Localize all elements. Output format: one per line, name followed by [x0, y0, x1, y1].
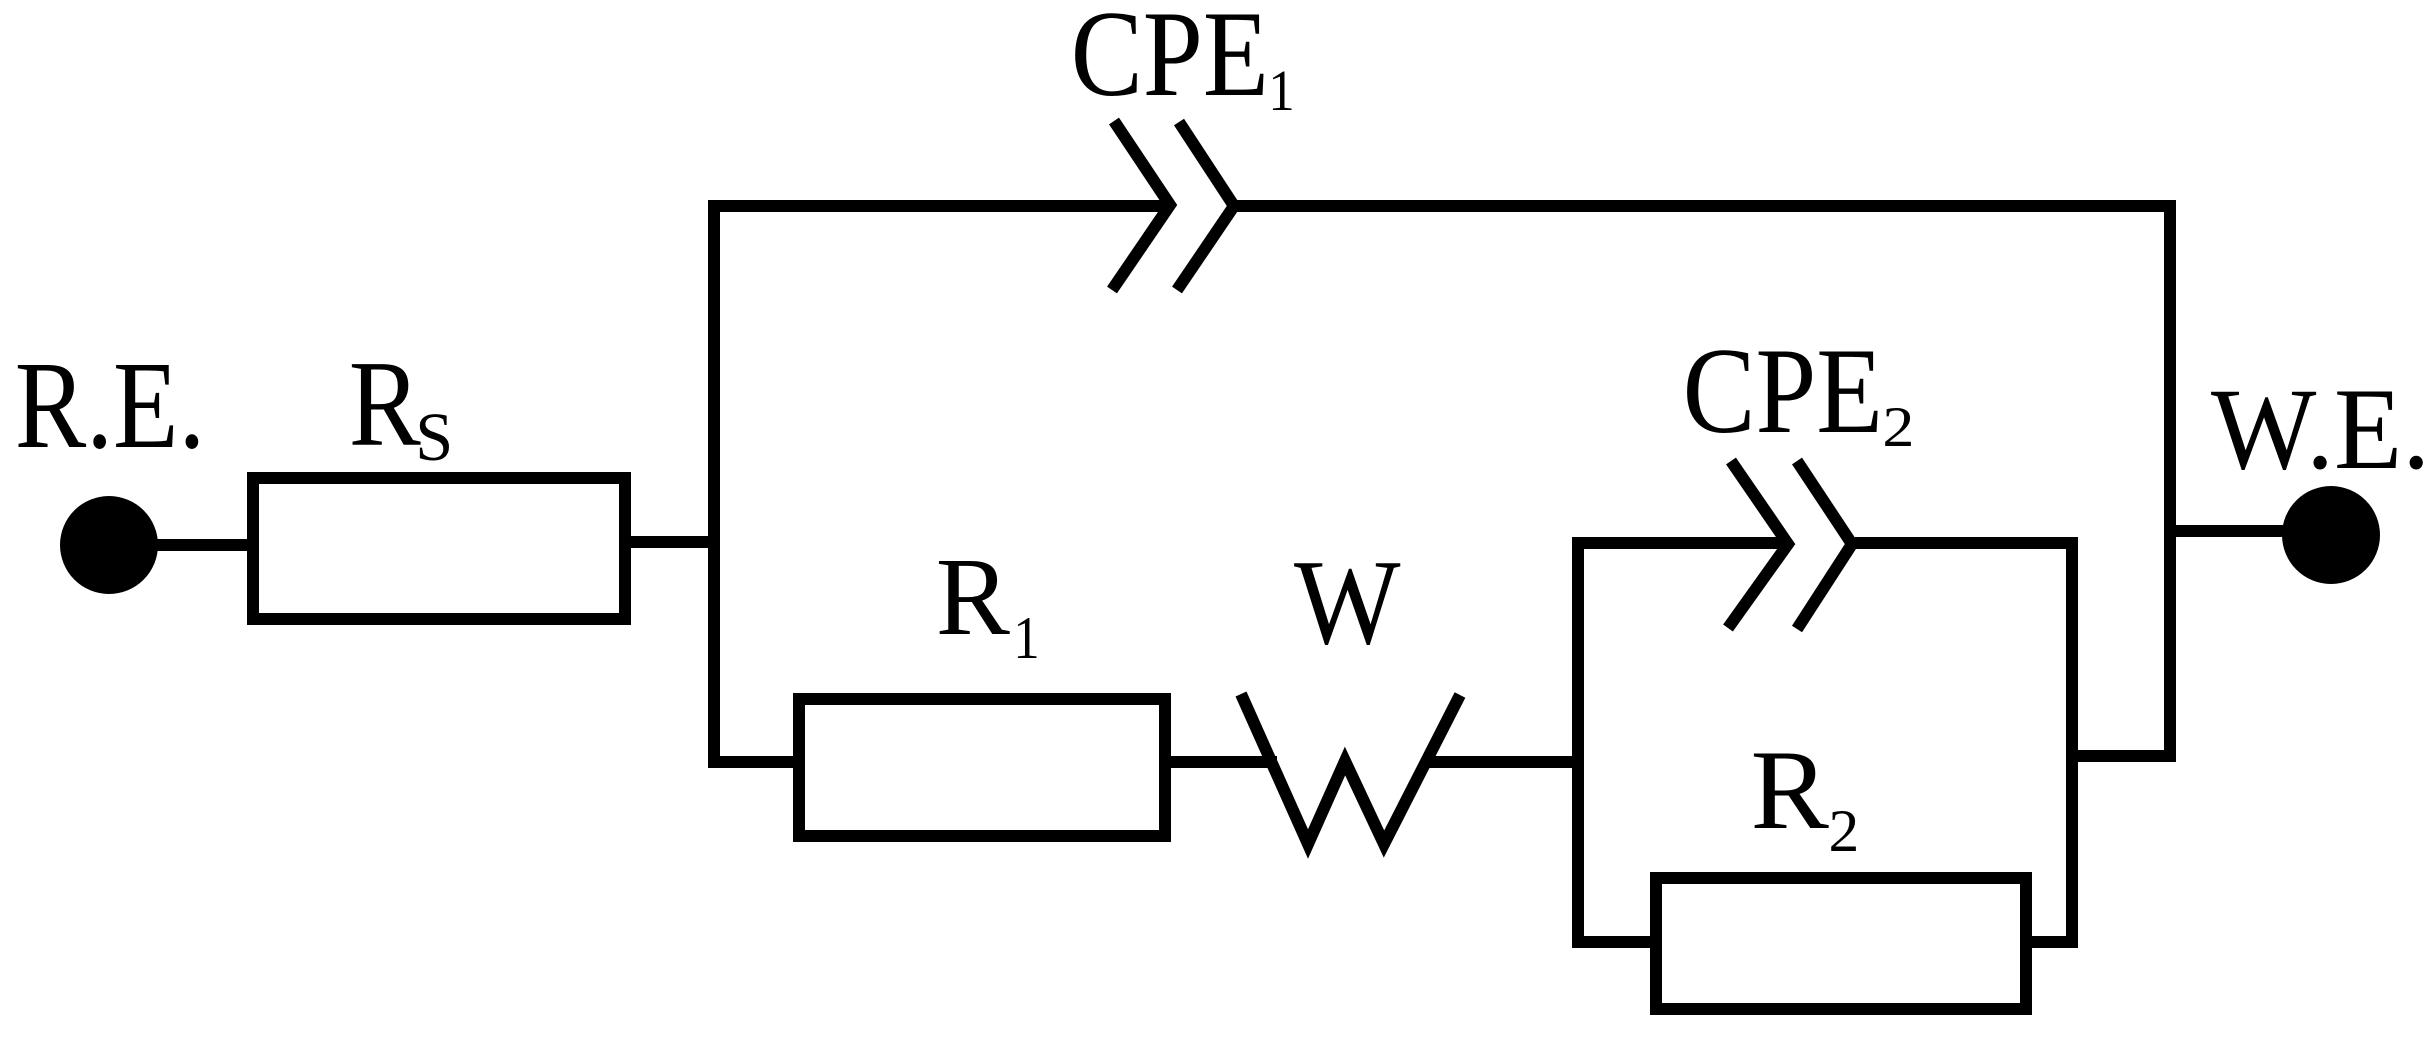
label R2	[1751, 728, 1860, 865]
wire block bottom branch left segment	[1572, 936, 1662, 948]
wire W to parallel block	[1427, 756, 1584, 768]
wire top rail left segment	[708, 200, 1172, 212]
svg-text:W: W	[1294, 536, 1401, 670]
wire bottom branch from node A	[708, 756, 805, 768]
wire R.E. terminal to Rs	[120, 539, 256, 551]
label W.E.	[2211, 364, 2424, 494]
svg-text:W.E.: W.E.	[2211, 364, 2424, 494]
svg-text:1: 1	[1013, 606, 1039, 672]
resistor R1	[799, 699, 1165, 836]
label CPE1	[1071, 0, 1295, 124]
svg-text:R: R	[1751, 728, 1829, 854]
wire block left vertical	[1572, 537, 1584, 948]
wire block bottom branch right segment	[2020, 936, 2078, 948]
label W	[1294, 536, 1401, 670]
label CPE2	[1683, 323, 1915, 459]
svg-text:2: 2	[1882, 396, 1914, 459]
wire to W.E. terminal	[2164, 525, 2292, 537]
resistor Rs	[253, 478, 625, 619]
svg-text:2: 2	[1829, 799, 1860, 865]
wire top rail right segment	[1237, 200, 2176, 212]
svg-text:R: R	[349, 337, 422, 473]
wire right rail	[2164, 200, 2176, 756]
wire R1 to W	[1165, 756, 1277, 768]
CPE CPE1	[1112, 121, 1234, 290]
svg-text:R: R	[936, 536, 1010, 659]
wire block to right rail	[2072, 750, 2176, 762]
wire block right vertical	[2066, 537, 2078, 948]
svg-text:R.E.: R.E.	[15, 337, 205, 475]
label Rs	[349, 337, 453, 476]
CPE CPE2	[1728, 461, 1852, 629]
label R.E.	[15, 337, 205, 475]
Warburg element W	[1241, 694, 1460, 844]
wire block top branch right segment	[1855, 537, 2078, 549]
svg-text:CPE: CPE	[1071, 0, 1269, 123]
label R1	[936, 536, 1040, 672]
svg-text:S: S	[415, 399, 453, 476]
svg-text:CPE: CPE	[1683, 323, 1883, 459]
svg-text:1: 1	[1268, 59, 1294, 124]
node A left rail wire	[708, 200, 720, 768]
wire Rs to node A	[625, 536, 720, 548]
terminal R.E.	[60, 496, 158, 594]
wire block top branch left segment	[1572, 537, 1790, 549]
terminal W.E.	[2282, 486, 2380, 584]
resistor R2	[1656, 878, 2026, 1009]
